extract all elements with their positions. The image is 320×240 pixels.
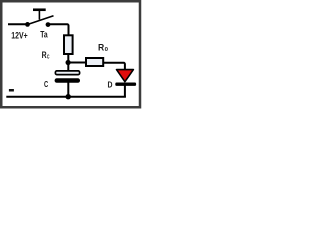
svg-text:0: 0 (105, 47, 108, 53)
pushbutton switch Ta (25, 10, 53, 27)
wire from node to resistor R0 (68, 62, 86, 64)
label R0 (98, 42, 108, 53)
node junction dot between RC, C and R0 (66, 60, 71, 65)
LED D: diode triangle (117, 70, 134, 82)
label RC (42, 50, 50, 61)
LED D: cathode bar (115, 83, 136, 86)
resistor RC (64, 35, 73, 54)
capacitor C: top plate (55, 71, 79, 75)
svg-text:Ta: Ta (40, 28, 48, 39)
svg-text:12V+: 12V+ (11, 30, 28, 41)
svg-text:R: R (98, 42, 105, 52)
bottom rail wire (negative return) (6, 96, 126, 98)
wire from switch right contact down to resistor RC (48, 24, 69, 34)
svg-text:C: C (47, 54, 50, 60)
minus terminal label (9, 89, 14, 92)
resistor R0 (86, 58, 103, 66)
capacitor C: bottom plate (55, 78, 80, 83)
svg-text:C: C (44, 80, 48, 89)
wire from 12V+ terminal to switch left contact (8, 23, 28, 25)
wire from R0 to LED anode (103, 63, 125, 70)
wire LED cathode down to bottom rail (124, 86, 126, 98)
wire from capacitor bottom plate to bottom rail (67, 83, 69, 98)
wire from RC bottom to capacitor top (through node) (67, 54, 69, 72)
svg-text:D: D (108, 79, 113, 89)
junction dot on bottom rail below capacitor (66, 94, 71, 99)
